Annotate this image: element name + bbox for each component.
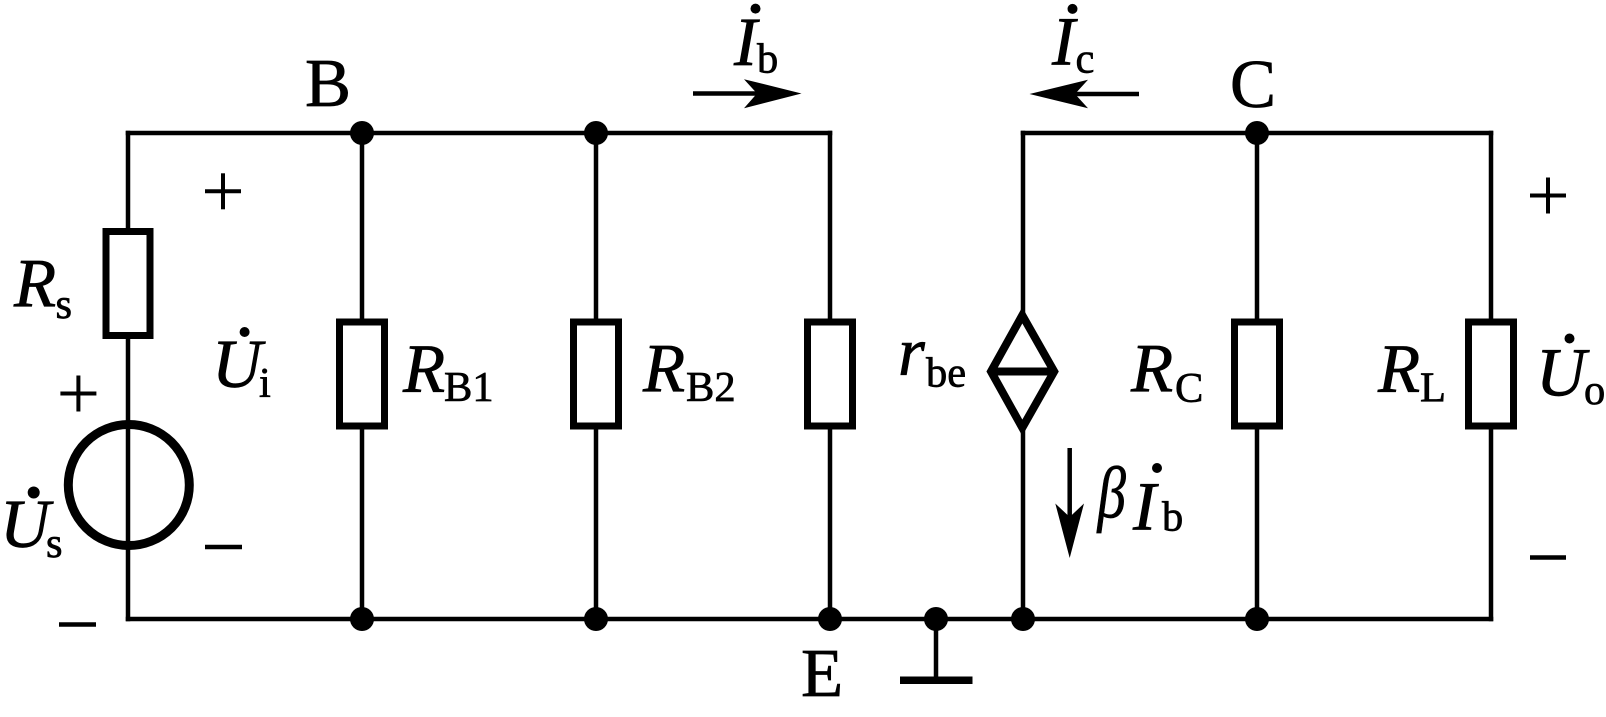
svg-text:s: s — [56, 281, 73, 328]
svg-text:C: C — [1175, 365, 1203, 412]
svg-text:L: L — [1420, 365, 1446, 412]
svg-text:B: B — [305, 45, 351, 121]
svg-text:C: C — [1230, 46, 1276, 122]
svg-text:i: i — [259, 360, 271, 407]
svg-text:R: R — [1377, 331, 1420, 407]
svg-text:I: I — [733, 4, 760, 80]
svg-text:B1: B1 — [444, 364, 494, 411]
svg-text:r: r — [898, 314, 926, 390]
svg-text:b: b — [1162, 494, 1183, 541]
svg-text:b: b — [757, 36, 778, 83]
svg-text:s: s — [46, 520, 63, 567]
svg-text:be: be — [926, 350, 966, 397]
svg-text:U: U — [1536, 335, 1590, 411]
svg-text:U: U — [212, 326, 266, 402]
svg-text:R: R — [1130, 331, 1173, 407]
svg-text:R: R — [402, 331, 445, 407]
svg-text:E: E — [801, 635, 843, 711]
svg-text:R: R — [642, 331, 685, 407]
svg-text:c: c — [1076, 36, 1095, 83]
svg-text:I: I — [1051, 3, 1078, 79]
svg-text:B2: B2 — [686, 364, 736, 411]
svg-text:I: I — [1132, 469, 1159, 545]
svg-text:R: R — [13, 246, 56, 322]
svg-text:β: β — [1096, 454, 1126, 534]
svg-text:o: o — [1584, 367, 1605, 414]
